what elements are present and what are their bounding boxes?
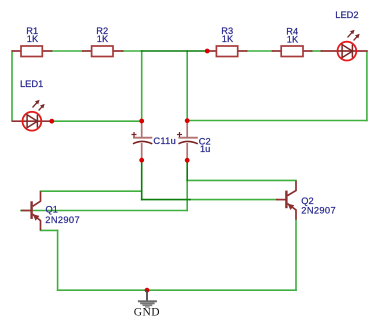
svg-text:LED1: LED1	[20, 79, 43, 89]
svg-text:2N2907: 2N2907	[45, 215, 80, 225]
svg-text:1K: 1K	[222, 34, 234, 44]
svg-text:1K: 1K	[97, 34, 109, 44]
svg-text:1u: 1u	[200, 144, 210, 154]
svg-text:1K: 1K	[27, 34, 39, 44]
svg-text:LED2: LED2	[335, 10, 358, 20]
svg-text:2N2907: 2N2907	[301, 206, 336, 216]
svg-text:1K: 1K	[287, 34, 299, 44]
svg-text:GND: GND	[134, 307, 160, 319]
svg-text:C11u: C11u	[153, 136, 176, 146]
svg-text:Q1: Q1	[46, 205, 58, 215]
